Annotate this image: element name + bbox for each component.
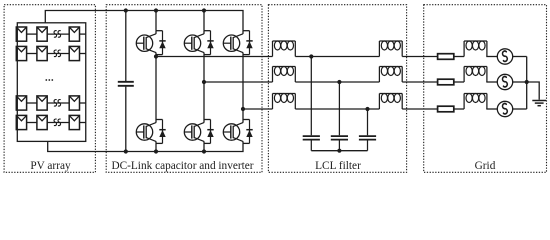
inductor L1 phase C: [272, 94, 274, 110]
wire leg B riser top to DC+ rail: [203, 11, 205, 31]
wire collector riser of Q-top leg A: [155, 31, 157, 34]
transistor Q-bottom leg C (IGBT in circle): [223, 124, 239, 140]
AC source phase C: [497, 101, 512, 116]
resistor grid impedance phase B: [438, 79, 454, 85]
junction DC- rail / capacitor: [124, 149, 128, 153]
wire row 4 module1-module2: [27, 122, 37, 124]
inductor L2 phase B: [378, 67, 380, 83]
wire collector riser of Q-bottom leg C: [242, 120, 244, 123]
wire collector riser of Q-bottom leg B: [203, 120, 205, 123]
ground symbol: [532, 100, 546, 102]
wire resistor to grid inductor phase A: [454, 56, 464, 58]
DC-Link capacitor and inverter dashed enclosure box: [106, 5, 262, 173]
wire phase A inverter to LCL: [156, 56, 273, 58]
Grid dashed enclosure box: [424, 5, 547, 173]
diode anti-parallel with Q-top leg B: [210, 31, 212, 55]
wire neutral bus to ground: [527, 82, 540, 100]
wire row 2 module2 to module 3: [47, 53, 69, 55]
wire grid inductor to source phase C: [486, 108, 497, 110]
wire leg A riser mid (upper to lower device): [155, 55, 157, 120]
PV string row 1 module 3: [69, 27, 79, 41]
junction filter capacitor tap phase C: [365, 107, 369, 111]
DC-link capacitor C1: [125, 11, 127, 82]
PV string row 4 module 2: [37, 115, 47, 129]
svg-text:LCL filter: LCL filter: [315, 160, 361, 172]
wire source phase C to neutral bus: [513, 108, 527, 110]
wire collector riser of Q-top leg B: [203, 31, 205, 34]
wire phase C between L1 and L2: [295, 108, 379, 110]
wire phase B inverter to LCL: [204, 81, 273, 83]
wire resistor to grid inductor phase C: [454, 108, 464, 110]
junction DC- rail leg B: [202, 149, 206, 153]
PV string row 3 module 3: [69, 96, 79, 110]
inductor L1 phase A: [272, 41, 274, 57]
inductor L2 phase C: [378, 94, 380, 110]
filter capacitor Cf phase B: [338, 82, 340, 135]
inductor L2 phase A: [378, 41, 380, 57]
diode anti-parallel with Q-top leg A: [162, 31, 164, 55]
junction DC- rail leg A: [154, 149, 158, 153]
wire row 1 module1-module2: [27, 33, 37, 35]
transistor Q-bottom leg B (IGBT in circle): [184, 124, 200, 140]
wire row 1 module3 to bus: [80, 33, 86, 35]
wire source phase A to neutral bus: [513, 56, 527, 58]
resistor grid impedance phase A: [438, 54, 454, 60]
wire phase B between L1 and L2: [295, 81, 379, 83]
wire phase B L2 to grid resistor: [402, 81, 437, 83]
junction DC+ rail leg B: [202, 8, 206, 12]
wire emitter riser of Q-top leg C: [242, 53, 244, 55]
wire row 3 module1-module2: [27, 102, 37, 104]
transistor Q-top leg A (IGBT in circle): [136, 35, 152, 51]
wire leg B riser bottom to DC- rail: [203, 143, 205, 151]
wire phase C inverter to LCL: [243, 108, 273, 110]
wire leg B riser mid: [203, 55, 205, 120]
wire emitter riser of Q-bottom leg C: [242, 141, 244, 143]
svg-text:PV array: PV array: [30, 160, 71, 172]
diode anti-parallel with Q-bottom leg B: [210, 120, 212, 144]
wire row 4 module3 to bus: [80, 122, 86, 124]
svg-text:Grid: Grid: [475, 160, 496, 172]
PV array ellipsis dots: [45, 79, 47, 81]
wire PV negative output to DC- rail: [48, 141, 243, 151]
wire collector riser of Q-bottom leg A: [155, 120, 157, 123]
PV string row 2 continuation break mark: [54, 50, 57, 57]
inductor grid phase B: [463, 67, 465, 83]
wire row 2 module3 to bus: [80, 53, 86, 55]
wire phase C L2 to grid resistor: [402, 108, 437, 110]
wire row 4 module2 to module 3: [47, 122, 69, 124]
wire grid inductor to source phase A: [486, 56, 497, 58]
PV string row 1 continuation break mark: [54, 31, 57, 38]
junction phase C tap on leg C: [241, 107, 245, 111]
wire emitter riser of Q-bottom leg A: [155, 141, 157, 143]
PV string row 3 continuation break mark: [54, 100, 57, 107]
wire phase A between L1 and L2: [295, 56, 379, 58]
AC source phase A: [497, 49, 512, 64]
wire filter capacitor common bus: [311, 150, 367, 152]
junction filter capacitor tap phase B: [337, 80, 341, 84]
junction phase B tap on leg B: [202, 80, 206, 84]
wire leg A riser top to DC+ rail: [155, 11, 157, 31]
wire grid inductor to source phase B: [486, 81, 497, 83]
wire grid neutral vertical bus: [526, 57, 528, 110]
PV string row 2 module 2: [37, 46, 47, 60]
wire PV positive output to DC+ rail: [45, 11, 243, 31]
wire collector riser of Q-top leg C: [242, 31, 244, 34]
wire emitter riser of Q-top leg B: [203, 53, 205, 55]
inductor grid phase C: [463, 94, 465, 110]
junction phase A tap on leg A: [154, 54, 158, 58]
PV string row 4 module 1: [16, 115, 26, 129]
junction DC+ rail leg A: [154, 8, 158, 12]
PV array inner bus rectangle: [17, 23, 85, 142]
PV string row 3 module 1: [16, 96, 26, 110]
PV string row 1 module 2: [37, 27, 47, 41]
PV string row 2 module 3: [69, 46, 79, 60]
wire emitter riser of Q-top leg A: [155, 53, 157, 55]
PV string row 4 continuation break mark: [54, 119, 57, 126]
PV string row 3 module 2: [37, 96, 47, 110]
diode anti-parallel with Q-top leg C: [249, 31, 251, 55]
wire resistor to grid inductor phase B: [454, 81, 464, 83]
filter capacitor Cf phase A: [310, 57, 312, 136]
junction filter capacitor tap phase A: [309, 54, 313, 58]
transistor Q-top leg B (IGBT in circle): [184, 35, 200, 51]
diode anti-parallel with Q-bottom leg A: [162, 120, 164, 144]
wire row 2 module1-module2: [27, 53, 37, 55]
wire phase A L2 to grid resistor: [402, 56, 437, 58]
PV string row 4 module 3: [69, 115, 79, 129]
LCL filter dashed enclosure box: [268, 5, 406, 173]
wire row 3 module3 to bus: [80, 102, 86, 104]
AC source phase B: [497, 74, 512, 89]
PV string row 1 module 1: [16, 27, 26, 41]
wire row 1 module2 to module 3: [47, 33, 69, 35]
inductor grid phase A: [463, 41, 465, 57]
PV array dashed enclosure box: [4, 5, 95, 173]
wire row 3 module2 to module 3: [47, 102, 69, 104]
svg-text:DC-Link capacitor and inverter: DC-Link capacitor and inverter: [111, 160, 253, 172]
transistor Q-top leg C (IGBT in circle): [223, 35, 239, 51]
junction neutral bus phase B: [525, 80, 529, 84]
junction capacitor bus middle: [337, 149, 341, 153]
wire source phase B to neutral bus: [513, 81, 527, 83]
inductor L1 phase B: [272, 67, 274, 83]
filter capacitor Cf phase C: [367, 109, 369, 135]
wire leg C riser mid: [242, 55, 244, 120]
diode anti-parallel with Q-bottom leg C: [249, 120, 251, 144]
PV string row 2 module 1: [16, 46, 26, 60]
transistor Q-bottom leg A (IGBT in circle): [136, 124, 152, 140]
wire emitter riser of Q-bottom leg B: [203, 141, 205, 143]
resistor grid impedance phase C: [438, 106, 454, 112]
wire leg A riser bottom to DC- rail: [155, 143, 157, 151]
junction DC+ rail / capacitor: [124, 8, 128, 12]
